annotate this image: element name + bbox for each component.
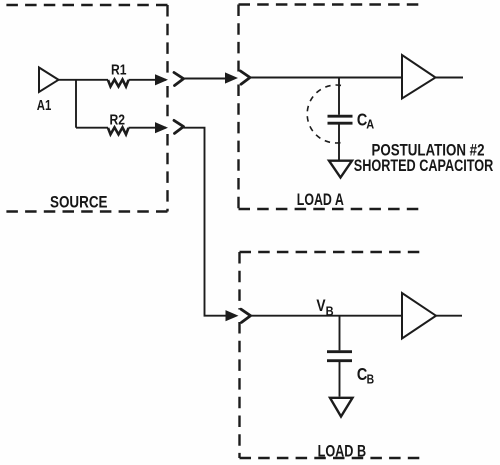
svg-text:LOAD A: LOAD A <box>297 191 344 209</box>
svg-text:V: V <box>316 297 325 315</box>
svg-text:B: B <box>326 305 334 319</box>
svg-text:B: B <box>367 371 375 386</box>
svg-text:A1: A1 <box>37 97 52 114</box>
svg-text:R2: R2 <box>110 111 126 128</box>
svg-text:R1: R1 <box>111 62 127 79</box>
svg-text:SHORTED CAPACITOR: SHORTED CAPACITOR <box>354 156 494 175</box>
svg-text:LOAD B: LOAD B <box>318 442 367 460</box>
svg-text:A: A <box>366 117 374 132</box>
svg-text:SOURCE: SOURCE <box>50 194 108 212</box>
